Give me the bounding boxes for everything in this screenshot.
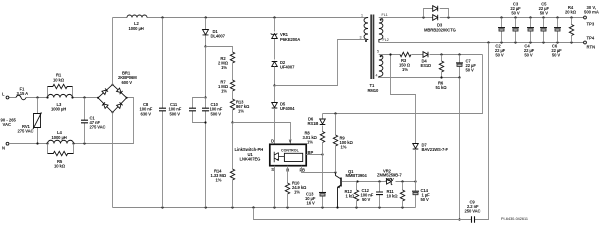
svg-text:1%: 1% <box>221 65 227 70</box>
svg-text:500 V: 500 V <box>211 111 222 116</box>
svg-text:20 kΩ: 20 kΩ <box>565 9 577 14</box>
terminal TP4 (RTN) <box>584 36 596 50</box>
svg-text:1%: 1% <box>307 139 313 144</box>
node: output rail junctions <box>500 16 572 18</box>
capacitor C14 <box>412 182 430 208</box>
svg-text:50 V: 50 V <box>552 53 561 58</box>
svg-text:1 kΩ: 1 kΩ <box>346 193 356 198</box>
svg-text:275 VAC: 275 VAC <box>90 125 106 130</box>
svg-text:5: 5 <box>377 49 379 53</box>
wire: AC N input line <box>9 98 134 144</box>
svg-text:1%: 1% <box>341 144 347 149</box>
node: N line junctions <box>36 142 85 144</box>
svg-text:PI-6430-042611: PI-6430-042611 <box>501 217 528 221</box>
wire: FL1 output line <box>379 17 584 19</box>
svg-text:TP4: TP4 <box>587 36 595 41</box>
inductor L3 <box>48 94 73 111</box>
TVS VR1 <box>271 18 301 60</box>
svg-text:ES1D: ES1D <box>421 63 432 68</box>
diode D7 <box>391 55 449 182</box>
resistor R2 <box>218 52 235 80</box>
svg-text:RTN: RTN <box>587 45 596 50</box>
wire: RTN rail (FL2) <box>379 41 584 43</box>
svg-text:3.15 A: 3.15 A <box>17 91 29 96</box>
wire: AC L input line <box>9 97 98 99</box>
capacitor C12 <box>361 182 384 208</box>
terminal TP3 (+30V output) <box>584 5 599 27</box>
svg-text:1%: 1% <box>221 88 227 93</box>
svg-text:1%: 1% <box>402 67 408 72</box>
svg-text:UF4004: UF4004 <box>280 106 295 111</box>
label: 90 - 265 VAC <box>1 117 17 127</box>
svg-text:3: 3 <box>360 36 362 40</box>
svg-text:1%: 1% <box>216 178 222 183</box>
wire: FB pin line <box>302 166 337 174</box>
capacitor C13 <box>305 155 326 208</box>
capacitor C3 <box>510 1 521 42</box>
svg-text:1000 µH: 1000 µH <box>129 26 144 31</box>
wire: BP pin line <box>306 153 323 155</box>
capacitor C10 <box>202 98 223 208</box>
terminal L <box>2 92 9 99</box>
node: L line junctions <box>36 96 85 98</box>
svg-text:MBRB20200CTG: MBRB20200CTG <box>424 27 456 32</box>
resistor R13 <box>230 99 250 123</box>
svg-text:275 VAC: 275 VAC <box>18 128 34 133</box>
capacitor C8 <box>140 18 167 208</box>
node: top rail junctions <box>161 16 275 18</box>
svg-text:D: D <box>271 139 274 144</box>
capacitor C7 <box>456 55 476 78</box>
capacitor C1 <box>81 98 106 144</box>
svg-text:50 V: 50 V <box>362 197 371 202</box>
svg-text:50 V: 50 V <box>540 10 549 15</box>
resistor R9 <box>333 114 353 173</box>
inductor L2 <box>127 15 147 31</box>
capacitor C6 <box>551 18 562 58</box>
node: D1 cathode node <box>204 45 232 97</box>
capacitor C4 <box>524 18 535 58</box>
capacitor C11 <box>169 96 207 122</box>
svg-text:50 V: 50 V <box>421 197 430 202</box>
svg-text:50 V: 50 V <box>524 53 533 58</box>
resistor R12 <box>345 182 359 208</box>
node: primary rail junctions <box>161 206 403 208</box>
wire: bias return drop <box>458 78 460 221</box>
label: LinkSwitch-PH U1 LNK407EG <box>235 147 264 161</box>
resistor R1 (parallel with L3) <box>48 73 73 98</box>
svg-text:250 VAC: 250 VAC <box>465 208 481 213</box>
svg-text:1%: 1% <box>238 108 244 113</box>
svg-text:VAC: VAC <box>3 122 12 127</box>
svg-text:FB: FB <box>300 168 306 173</box>
diode D3 (dual, MBRB20200CTG) <box>422 6 455 33</box>
svg-text:V: V <box>289 139 292 144</box>
transformer T1 <box>360 13 389 93</box>
svg-text:51 kΩ: 51 kΩ <box>436 85 448 90</box>
svg-text:600 V: 600 V <box>122 80 133 85</box>
resistor R8 <box>303 130 325 154</box>
svg-text:BAV21WS-7-F: BAV21WS-7-F <box>422 147 449 152</box>
zener VR2 <box>377 168 402 185</box>
svg-text:1: 1 <box>361 14 363 18</box>
svg-text:N: N <box>2 146 5 151</box>
svg-text:10 kΩ: 10 kΩ <box>387 193 399 198</box>
resistor R7 <box>218 79 235 99</box>
wire: S pin to primary rail <box>274 166 276 208</box>
terminal N <box>2 142 9 150</box>
svg-text:630 V: 630 V <box>141 111 152 116</box>
diode D2 <box>272 60 295 86</box>
svg-text:50 V: 50 V <box>466 67 475 72</box>
svg-text:TP3: TP3 <box>587 21 595 26</box>
svg-text:500 mA: 500 mA <box>584 10 599 15</box>
svg-text:500 V: 500 V <box>170 111 181 116</box>
inductor L4 <box>48 130 74 144</box>
svg-text:1000 µH: 1000 µH <box>52 135 67 140</box>
label: PI-6430-042611 <box>501 217 528 221</box>
svg-text:FL2: FL2 <box>383 38 389 42</box>
svg-text:10 kΩ: 10 kΩ <box>54 164 66 169</box>
svg-text:LNK407EG: LNK407EG <box>240 157 261 162</box>
svg-text:RM10: RM10 <box>368 88 380 93</box>
svg-text:CONTROL: CONTROL <box>281 149 300 153</box>
svg-text:RS1B: RS1B <box>308 121 319 126</box>
resistor R4 <box>565 5 577 43</box>
bridge rectifier BR1 <box>97 70 137 113</box>
capacitor C9 <box>465 199 481 223</box>
resistor R3 <box>399 52 411 72</box>
op-amp U1 LinkSwitch-PH (IC box) <box>270 139 314 173</box>
wire: top DC bus rail <box>113 17 369 19</box>
svg-text:16 V: 16 V <box>307 201 316 206</box>
svg-text:50 V: 50 V <box>511 10 520 15</box>
resistor R14 <box>211 123 235 208</box>
svg-text:DL4007: DL4007 <box>211 34 226 39</box>
svg-text:10 kΩ: 10 kΩ <box>53 78 65 83</box>
node: divider tap to V pin <box>231 121 290 144</box>
diode D6 <box>308 114 326 132</box>
wire: bridge DC+ riser <box>112 18 114 85</box>
resistor R5 (parallel with L4) <box>48 144 74 169</box>
svg-text:1000 µH: 1000 µH <box>51 107 66 112</box>
transistor Q1 <box>336 169 368 208</box>
svg-text:FL1: FL1 <box>382 13 388 17</box>
wire: primary return rail <box>113 207 416 209</box>
wire: bridge DC- drop to primary return rail <box>112 112 114 207</box>
svg-text:50 V: 50 V <box>495 53 504 58</box>
svg-text:4: 4 <box>376 73 378 77</box>
svg-text:UF4007: UF4007 <box>280 65 295 70</box>
varistor RV1 <box>18 98 42 144</box>
capacitor C5 <box>539 1 550 42</box>
diode D5 <box>272 101 295 144</box>
svg-text:MMBT3904: MMBT3904 <box>346 173 368 178</box>
diode D4 <box>421 52 432 68</box>
fuse F1 <box>16 87 28 100</box>
wire: Y-cap rail <box>254 43 489 220</box>
diode D1 <box>203 18 226 47</box>
svg-text:L: L <box>2 92 5 97</box>
resistor R6 <box>436 55 448 90</box>
capacitor C2 <box>495 18 506 58</box>
node: clamp / drain junction <box>273 84 275 102</box>
resistor R10 (R pin) <box>285 166 307 208</box>
wire: secondary pin5 line <box>379 53 483 55</box>
resistor R11 <box>387 182 405 208</box>
wire: base / zener line <box>356 180 416 182</box>
svg-text:S: S <box>271 167 274 172</box>
svg-text:1%: 1% <box>294 190 300 195</box>
wire: bias sense line to D6 <box>323 55 483 115</box>
svg-text:P6KE200A: P6KE200A <box>280 37 300 42</box>
svg-text:39 V: 39 V <box>386 177 395 182</box>
wire: secondary pin4 line <box>379 76 461 78</box>
wire: drain net from T1 pin 3 <box>275 40 369 86</box>
